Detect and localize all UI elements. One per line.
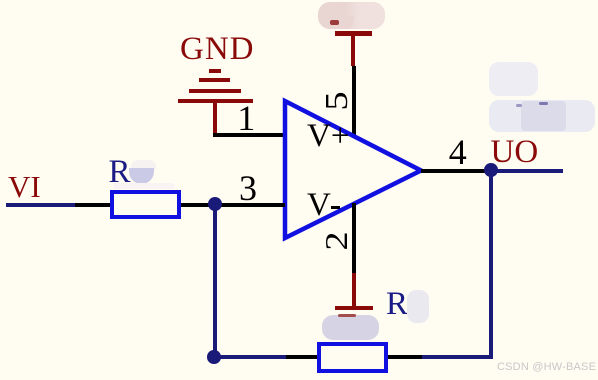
blur blob over R1 subscript [131, 160, 156, 173]
blur blob over R2 subscript [407, 290, 429, 323]
node VI label [8, 171, 41, 202]
blur blob right lower [489, 100, 595, 132]
pin wire R2 left (black) [286, 355, 317, 359]
power bar -V [335, 306, 373, 311]
ground bar 1 (top, smallest) [209, 69, 221, 73]
junction node A [208, 197, 222, 211]
blur blob residue red mark [338, 314, 356, 317]
node GND label [180, 33, 255, 66]
pin number 2 (rotated) [321, 217, 351, 265]
blur residue red speck [330, 20, 339, 25]
resistor R1 designator [109, 156, 131, 189]
pin wire R1 right to op-amp pin3 (black) [181, 203, 285, 207]
wire right vertical (output to feedback) [489, 169, 493, 359]
ground bar 4 (bottom, widest) [178, 99, 253, 103]
op-amp V+ label [307, 120, 349, 153]
op-amp V- label [307, 189, 331, 222]
pin number 4 [449, 134, 467, 170]
pin number 1 [237, 100, 255, 136]
resistor R2 designator [386, 288, 408, 321]
power stub -V [352, 273, 356, 308]
blur blob over -V net label [322, 315, 379, 340]
blur faint band above R1 body [113, 183, 175, 189]
blur blob over +V net label [318, 2, 385, 29]
node UO label [491, 136, 539, 169]
blur blob right upper [489, 62, 538, 96]
pin wire R1 left (black) [75, 203, 110, 207]
wire input (navy segment) [6, 203, 75, 207]
power stub +V [351, 33, 355, 66]
wire left vertical (feedback) [213, 204, 217, 357]
wire output right navy segment [490, 169, 563, 173]
wire bottom right navy segment [422, 355, 493, 359]
wire pin5 (power to op-amp V+) [352, 66, 356, 137]
ground bar 2 [199, 78, 230, 82]
ground bar 3 [189, 89, 241, 93]
power bar +V [335, 31, 372, 36]
junction node UO [484, 163, 498, 177]
wire bottom navy segment [215, 355, 286, 359]
wire output pin4 (black) [421, 169, 485, 173]
watermark CSDN [497, 362, 596, 373]
resistor R1 body [110, 190, 181, 219]
op-amp V- minus bar [331, 206, 340, 210]
junction node B [207, 350, 221, 364]
ground stub wire [213, 99, 217, 137]
wire pin1 (ground to op-amp) [213, 133, 285, 137]
blur residue specks [539, 102, 548, 105]
wire pin2 (op-amp V- to power) [352, 203, 356, 273]
resistor R2 body [317, 342, 389, 373]
pin wire R2 right (black) [388, 355, 422, 359]
pin number 3 [239, 170, 257, 206]
pin number 5 (rotated) [321, 77, 351, 125]
